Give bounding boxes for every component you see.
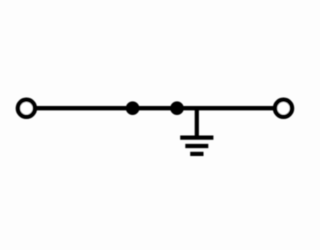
wire: [35, 106, 275, 110]
terminal 2 (right clamp point): [275, 100, 292, 117]
junction dot A: [126, 101, 140, 115]
ground (PE earth) bar 2: [185, 144, 208, 148]
ground stem wire: [195, 108, 199, 136]
ground (PE earth) bar 3: [190, 152, 203, 156]
junction dot B: [170, 101, 184, 115]
terminal 1 (left clamp point): [18, 100, 35, 117]
ground (PE earth) bar 1: [180, 136, 213, 140]
